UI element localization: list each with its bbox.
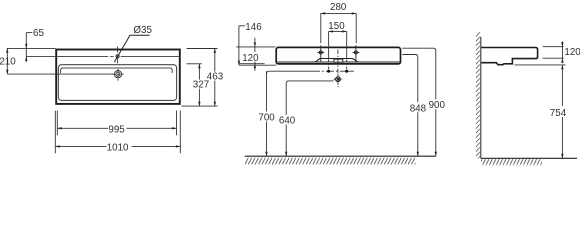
- svg-text:995: 995: [108, 125, 125, 136]
- dim 146 line: [238, 26, 240, 65]
- floor hatch front: [245, 157, 416, 165]
- drain inner circle: [116, 72, 120, 76]
- dim 995 line: [57, 127, 108, 129]
- svg-text:700: 700: [258, 113, 275, 124]
- bowl plateau line: [315, 59, 358, 62]
- fixing hole right: [353, 45, 360, 62]
- supply centerline: [267, 71, 355, 74]
- dim 120 line: [561, 41, 563, 63]
- ext line drain-left: [7, 73, 113, 75]
- drain outlet symbol: [334, 74, 343, 87]
- basin bowl: [58, 65, 176, 101]
- svg-text:146: 146: [245, 22, 262, 33]
- dim 150 ext left: [328, 31, 330, 58]
- svg-text:Ø35: Ø35: [133, 25, 152, 36]
- svg-text:463: 463: [207, 71, 224, 82]
- drain flange box: [334, 59, 343, 62]
- dim 280 ext right: [355, 13, 357, 43]
- ext 995 left: [56, 111, 58, 136]
- svg-text:280: 280: [330, 2, 347, 13]
- dim 210 line: [6, 48, 8, 74]
- ext line bar top-left: [236, 46, 275, 48]
- faucet centerline horizontal: [26, 55, 180, 57]
- dim 150 ext right: [346, 31, 348, 58]
- bowl inner ledge line: [61, 68, 173, 73]
- dim 640 corner: [286, 81, 333, 156]
- drain crosshair: [117, 69, 119, 81]
- ext line 848: [402, 55, 418, 157]
- svg-text:120: 120: [242, 53, 259, 64]
- faucet hole: [116, 55, 119, 58]
- svg-text:848: 848: [410, 104, 427, 115]
- side profile: [481, 48, 537, 65]
- svg-text:640: 640: [279, 116, 296, 127]
- ext line underside-left: [239, 64, 276, 66]
- ext 1010 right: [179, 111, 181, 154]
- svg-text:120: 120: [564, 47, 580, 58]
- dim 327 line: [198, 64, 200, 80]
- dim 280 line: [321, 12, 356, 14]
- ext 995 right: [176, 111, 178, 136]
- svg-text:754: 754: [550, 108, 567, 119]
- svg-text:65: 65: [33, 28, 44, 39]
- ext line 900: [402, 48, 436, 156]
- ext line underside side: [514, 64, 565, 66]
- ext line bar bottom-left: [239, 63, 265, 65]
- drain outer circle: [114, 71, 121, 78]
- floor line side: [481, 157, 577, 159]
- dim 700 line: [266, 71, 268, 111]
- fixing hole left: [317, 45, 324, 62]
- supply point right: [345, 70, 348, 73]
- dim 327 ext top: [187, 63, 202, 65]
- ext line top-left: [7, 47, 55, 49]
- dim 65 line: [25, 33, 27, 62]
- dim 150 line: [329, 30, 347, 32]
- svg-text:210: 210: [0, 56, 16, 67]
- dim 280 ext left: [320, 13, 322, 43]
- ext 1010 left: [54, 111, 56, 154]
- dim 120 ext top: [543, 46, 564, 48]
- wall hatch: [476, 32, 481, 158]
- svg-text:900: 900: [429, 100, 446, 111]
- faucet centerline vertical: [117, 47, 119, 64]
- floor line front: [245, 155, 436, 157]
- dim 463 line: [214, 49, 216, 72]
- basin outer rect: [56, 50, 180, 104]
- svg-text:1010: 1010: [107, 142, 129, 153]
- label 640: [278, 115, 296, 125]
- dim 1010 line: [55, 145, 106, 147]
- drain centerline front: [337, 50, 339, 74]
- svg-text:150: 150: [328, 21, 345, 32]
- dim 120 ext bottom: [543, 57, 564, 59]
- wall line: [480, 37, 482, 158]
- ext bottom right: [182, 105, 218, 107]
- dim 120 line: [254, 38, 256, 52]
- bar bottom rim line: [277, 61, 399, 63]
- floor hatch side: [481, 159, 542, 166]
- leader line Ø35: [114, 35, 149, 62]
- supply point left: [327, 70, 330, 73]
- basin bar outline: [276, 47, 400, 64]
- dim 754 line: [561, 65, 563, 158]
- dim 463 ext top: [187, 48, 218, 50]
